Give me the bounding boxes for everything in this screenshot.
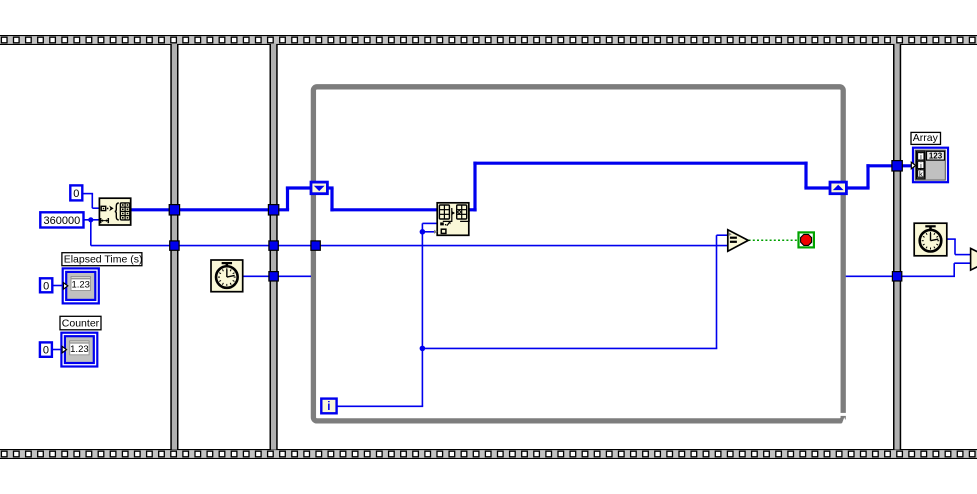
svg-text:i: i (327, 401, 330, 413)
svg-text:0: 0 (73, 188, 79, 200)
svg-text:360000: 360000 (44, 215, 81, 227)
svg-text:Array: Array (913, 132, 939, 144)
svg-text:123: 123 (929, 151, 943, 160)
svg-text:0: 0 (43, 280, 49, 292)
svg-text:k: k (919, 169, 923, 178)
svg-text:0: 0 (43, 345, 49, 357)
svg-text:1.23: 1.23 (71, 280, 90, 291)
svg-text:Elapsed Time (s): Elapsed Time (s) (64, 253, 143, 265)
svg-text:Counter: Counter (62, 317, 100, 329)
svg-text:1.23: 1.23 (70, 344, 89, 355)
